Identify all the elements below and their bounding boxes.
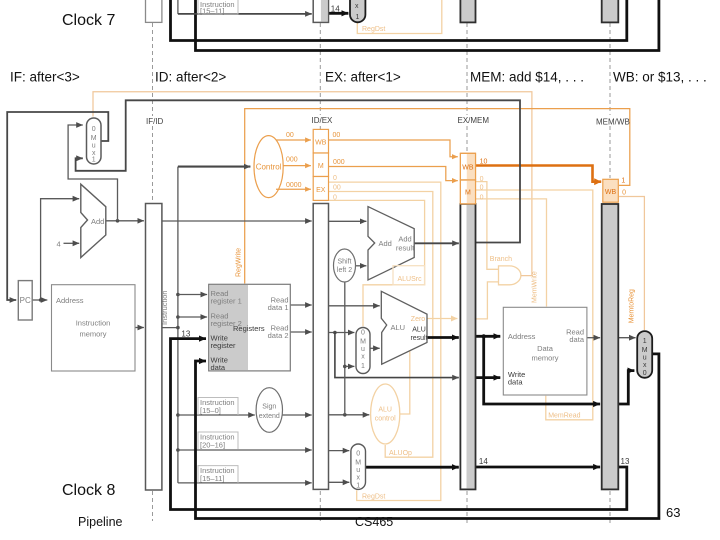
svg-text:00: 00 — [286, 132, 294, 139]
AND gate (branch taken) — [499, 266, 521, 285]
ALU — [381, 291, 427, 364]
svg-text:IF: after<3>: IF: after<3> — [10, 70, 80, 85]
svg-text:0: 0 — [361, 330, 365, 337]
sign extend oval — [256, 388, 282, 433]
svg-text:WB: WB — [462, 165, 474, 172]
instruction 15-0 field box — [198, 398, 238, 416]
wire: instruction 15-11 to ID/EX — [178, 482, 312, 484]
svg-text:memory: memory — [79, 330, 106, 339]
wire: writeback mux output loop to register write data — [196, 354, 659, 519]
wire: read data 2 ID/EX to ALUSrc mux input 0 — [329, 332, 355, 334]
wire: RegDst mux output to EX/MEM (write register 14) — [366, 466, 459, 469]
Control oval — [254, 136, 283, 198]
wire: PC mux output loop to PC — [7, 112, 108, 300]
wire: PC value up to Add — [41, 199, 80, 300]
svg-text:M: M — [642, 347, 648, 354]
svg-text:EX/MEM: EX/MEM — [458, 116, 490, 125]
clock7 MEM/WB pipeline register (bottom fragment) — [602, 0, 619, 22]
writeback mux — [637, 331, 652, 378]
svg-text:u: u — [643, 355, 647, 362]
svg-text:data: data — [569, 335, 584, 344]
svg-text:x: x — [361, 354, 365, 361]
svg-text:register 1: register 1 — [211, 297, 242, 306]
svg-text:0: 0 — [480, 184, 484, 191]
instruction memory — [52, 285, 136, 371]
svg-text:ID: after<2>: ID: after<2> — [155, 70, 226, 85]
ALUSrc label box — [393, 266, 425, 285]
svg-text:ALUSrc: ALUSrc — [398, 276, 423, 283]
PC source mux — [87, 118, 102, 164]
instruction 15-11 field box — [198, 466, 238, 483]
clock7 EX/MEM pipeline register (bottom fragment) — [460, 0, 475, 22]
svg-text:result: result — [410, 335, 427, 342]
svg-text:Sign: Sign — [262, 404, 276, 411]
svg-text:u: u — [356, 467, 360, 474]
svg-text:Data: Data — [537, 344, 554, 353]
ID/EX EX control box — [313, 177, 328, 201]
Zero wire EX/MEM to AND gate — [476, 282, 499, 319]
Control oval outputs to ID/EX EX — [276, 188, 311, 190]
svg-text:Add: Add — [91, 217, 104, 226]
PC+4 adder — [81, 184, 106, 257]
svg-text:000: 000 — [333, 159, 345, 166]
PC register — [18, 281, 32, 320]
Zero flag wire ALU to EX/MEM — [427, 318, 457, 320]
WB control staircase ID/EX to EX/MEM — [329, 140, 458, 157]
clock7 instruction [15-11] field box — [198, 0, 238, 16]
svg-text:Pipeline: Pipeline — [78, 515, 123, 529]
svg-text:left 2: left 2 — [337, 267, 352, 274]
wire: IF/ID instruction to bus — [162, 327, 178, 329]
RegWrite control wire MEM/WB to register file — [245, 109, 630, 284]
junction: bus at instruction 15-0 — [176, 413, 180, 417]
svg-text:M: M — [355, 460, 361, 467]
svg-text:14: 14 — [479, 457, 488, 466]
wire: data memory read data to MEM/WB — [587, 337, 600, 339]
wire: instruction bus vertical — [177, 167, 179, 483]
wire: read data MEM/WB to writeback mux input 1 — [618, 337, 635, 339]
svg-text:0: 0 — [622, 190, 626, 197]
svg-text:x: x — [356, 475, 360, 482]
wire: branch target loop EX/MEM to PC mux input 1 — [76, 100, 520, 242]
svg-text:ALU: ALU — [378, 407, 392, 414]
wire: instruction 20-16 ID/EX to RegDst mux input 0 — [329, 450, 350, 452]
svg-text:13: 13 — [621, 457, 630, 466]
MemRead control wire EX/MEM to data memory bottom — [476, 190, 593, 420]
svg-text:ID/EX: ID/EX — [312, 116, 334, 125]
svg-text:MemtoReg: MemtoReg — [629, 289, 636, 323]
wire: instruction memory output to IF/ID — [135, 327, 144, 329]
wire: ALU result EX/MEM to data memory address — [476, 335, 501, 338]
stage boundary dashed line EX (x=467) — [466, 23, 468, 526]
svg-text:Address: Address — [56, 296, 84, 305]
Branch control wire EX/MEM to AND gate — [476, 182, 499, 270]
wire: immediate up to shift left 2 — [344, 282, 346, 415]
clock7 ID/EX pipeline register (bottom fragment) — [313, 0, 328, 22]
M control staircase ID/EX to EX/MEM — [329, 167, 458, 181]
wire: instruction 15-11 ID/EX to RegDst mux input 1 — [329, 481, 350, 483]
svg-text:4: 4 — [57, 240, 61, 249]
svg-text:x: x — [355, 3, 359, 10]
wire: write data EX/MEM to data memory — [476, 376, 501, 379]
branch adder — [368, 207, 415, 280]
wire: immediate ID/EX to ALU control — [329, 414, 370, 416]
wire: read data 2 to ID/EX — [290, 331, 311, 333]
ALUSrc mux — [356, 328, 370, 374]
wire: instruction bus to Control — [178, 166, 251, 168]
svg-text:Instruction: Instruction — [76, 319, 111, 328]
wire: write register number EX/MEM to MEM/WB (14) — [476, 466, 601, 469]
wire: bus to read register 2 — [178, 316, 207, 318]
register file — [209, 284, 291, 372]
IF/ID pipeline register — [146, 204, 162, 491]
clock7 RegDst mux (bottom fragment) — [350, 0, 365, 22]
Control oval outputs to ID/EX WB — [276, 139, 311, 141]
ALU control output wire to ALU — [400, 351, 410, 414]
junction: bus at read register 1 — [176, 293, 180, 297]
svg-text:13: 13 — [181, 330, 190, 339]
svg-text:ALU: ALU — [391, 323, 406, 332]
junction: bus at IF/ID output — [176, 326, 180, 330]
wire: constant 4 to Add — [64, 242, 80, 244]
wire: instruction 15-0 to sign extend — [178, 414, 255, 416]
wire: immediate to ALUSrc mux input 1 — [345, 365, 355, 367]
MemWrite control wire EX/MEM to data memory — [476, 199, 547, 307]
WB control bold wire EX/MEM to MEM/WB (value 10) — [476, 166, 602, 182]
clock7 wire: value 14 from ID/EX to RegDst mux — [329, 5, 349, 14]
svg-text:WB: or $13, . . .: WB: or $13, . . . — [613, 70, 707, 85]
stage boundary dashed line MEM (x=610) — [609, 23, 611, 526]
svg-text:Zero: Zero — [411, 316, 426, 323]
svg-text:1: 1 — [621, 178, 625, 185]
svg-text:000: 000 — [286, 157, 298, 164]
svg-text:memory: memory — [531, 354, 558, 363]
svg-text:[20–16]: [20–16] — [200, 441, 225, 450]
svg-text:data: data — [508, 378, 523, 387]
wire: ALU result MEM/WB to writeback mux input 0 — [618, 371, 634, 404]
wire: PC+4 IF/ID to ID/EX — [162, 220, 312, 222]
svg-text:M: M — [360, 339, 366, 346]
junction: bus at read register 2 — [176, 315, 180, 319]
wire: ALU result ALU to EX/MEM — [427, 336, 459, 339]
svg-text:extend: extend — [259, 413, 280, 420]
svg-text:0000: 0000 — [286, 182, 302, 189]
svg-text:RegDst: RegDst — [362, 493, 385, 500]
wire: bus to read register 1 — [178, 294, 207, 296]
svg-text:Registers: Registers — [233, 324, 265, 333]
svg-text:MemWrite: MemWrite — [532, 271, 539, 303]
ALUSrc control wire (ID/EX EX-field to ALUSrc mux) — [329, 200, 425, 326]
Control oval outputs to ID/EX M — [283, 165, 311, 167]
svg-text:0: 0 — [643, 370, 647, 377]
EX/MEM pipeline register — [460, 204, 475, 490]
wire: sign extend output to ID/EX — [282, 414, 311, 416]
svg-text:control: control — [375, 416, 396, 423]
clock7 RegDst control wire hook — [357, 0, 442, 34]
ALU control oval — [371, 384, 400, 444]
svg-text:0: 0 — [333, 175, 337, 182]
clock7 wire: write-register feedback loop bottom — [171, 0, 627, 41]
svg-text:10: 10 — [480, 158, 488, 165]
wire: read data 1 ID/EX to ALU — [329, 305, 380, 307]
wire: branch Add result to EX/MEM — [414, 242, 459, 244]
wire: PC+4 up to PC mux input 0 — [68, 125, 117, 221]
svg-text:u: u — [361, 346, 365, 353]
data memory — [503, 307, 587, 395]
svg-text:M: M — [318, 163, 324, 170]
wire: read data 2 down to EX/MEM write data — [335, 333, 459, 378]
svg-text:ALU: ALU — [412, 327, 426, 334]
junction: bus at instruction 20-16 — [176, 448, 180, 452]
EX/MEM M control box — [460, 180, 475, 204]
ALUOp control wire (ID/EX EX-field to ALU control) — [329, 192, 433, 458]
svg-text:M: M — [91, 135, 97, 142]
svg-text:EX: EX — [316, 187, 326, 194]
svg-text:u: u — [92, 143, 96, 150]
svg-text:0: 0 — [480, 194, 484, 201]
svg-text:0: 0 — [356, 451, 360, 458]
svg-text:00: 00 — [333, 132, 341, 139]
wire: Add output (PC+4) to IF/ID — [106, 220, 144, 222]
svg-text:1: 1 — [356, 14, 360, 21]
junction: PC+4 — [116, 219, 120, 223]
svg-text:result: result — [396, 244, 415, 253]
MEM/WB pipeline register — [602, 204, 619, 489]
wire: PC+4 ID/EX to branch Add — [329, 220, 367, 222]
svg-text:ALUOp: ALUOp — [389, 450, 412, 457]
svg-text:Clock 8: Clock 8 — [62, 482, 115, 499]
svg-text:RegDst: RegDst — [362, 26, 385, 33]
svg-text:00: 00 — [333, 185, 341, 192]
svg-text:RegWrite: RegWrite — [236, 248, 243, 277]
svg-text:1: 1 — [643, 338, 647, 345]
wire: instruction 20-16 to ID/EX — [178, 449, 312, 451]
svg-text:IF/ID: IF/ID — [146, 117, 164, 126]
svg-text:1: 1 — [361, 363, 365, 370]
svg-text:M: M — [465, 190, 471, 197]
svg-text:0: 0 — [333, 195, 337, 202]
svg-text:WB: WB — [605, 189, 617, 196]
junction: read data 2 branch — [333, 331, 337, 335]
svg-text:data 2: data 2 — [268, 331, 289, 340]
clock7 wire: write-data feedback loop bottom — [196, 0, 659, 51]
svg-text:MemRead: MemRead — [548, 413, 580, 420]
ID/EX M control box — [313, 153, 328, 177]
wire: PC to instruction memory address — [32, 299, 47, 301]
wire: write register number loop MEM/WB to register file (13) — [171, 339, 627, 510]
svg-text:register: register — [211, 341, 237, 350]
ID/EX pipeline register — [313, 204, 328, 490]
clock7 wire: instruction [15-11] to ID/EX — [178, 13, 312, 15]
svg-text:MEM: add $14, . . .: MEM: add $14, . . . — [470, 70, 584, 85]
MemtoReg control wire MEM/WB to writeback mux — [619, 197, 644, 331]
RegDst control wire (ID/EX EX-field to RegDst mux) — [329, 182, 441, 500]
wire: ALUSrc mux output to ALU — [370, 347, 380, 349]
svg-text:Clock 7: Clock 7 — [62, 12, 115, 29]
svg-text:MEM/WB: MEM/WB — [596, 118, 630, 127]
junction: immediate to mux branch — [343, 365, 347, 369]
svg-text:data 1: data 1 — [268, 303, 289, 312]
svg-text:[15–11]: [15–11] — [200, 7, 224, 16]
clock7 wire: instruction bus stub — [177, 0, 179, 14]
EX/MEM WB control box — [460, 153, 475, 180]
svg-text:Shift: Shift — [337, 259, 351, 266]
svg-text:Add: Add — [379, 239, 392, 248]
junction: immediate branch — [343, 413, 347, 417]
svg-text:data: data — [211, 363, 226, 372]
shift left 2 oval — [334, 249, 356, 282]
svg-text:1: 1 — [356, 483, 360, 490]
stage boundary dashed line ID (x=320.3) — [319, 23, 321, 521]
svg-text:Control: Control — [256, 163, 282, 172]
junction: ALU result split — [482, 334, 486, 338]
stage boundary dashed line IF (x=152.5) — [152, 23, 154, 521]
RegDst mux — [351, 444, 366, 490]
svg-text:63: 63 — [666, 505, 680, 520]
svg-text:EX: after<1>: EX: after<1> — [325, 70, 401, 85]
PCSrc wire AND gate to PC mux — [93, 92, 532, 276]
wire: shift left 2 to branch Add — [356, 265, 367, 267]
instruction 20-16 field box — [198, 432, 238, 450]
svg-text:1: 1 — [92, 157, 96, 164]
svg-text:x: x — [643, 362, 647, 369]
ID/EX WB control box — [313, 129, 328, 153]
wire: read data 1 to ID/EX — [290, 304, 311, 306]
svg-text:PC: PC — [20, 296, 31, 305]
svg-text:[15–11]: [15–11] — [200, 474, 224, 483]
svg-text:[15–0]: [15–0] — [200, 406, 221, 415]
wire: ALU result bypass around data memory to MEM/WB — [484, 336, 600, 404]
svg-text:0: 0 — [92, 126, 96, 133]
svg-text:14: 14 — [331, 5, 340, 14]
svg-text:Add: Add — [398, 235, 411, 244]
junction: PC output — [39, 298, 43, 302]
MEM/WB WB control box — [603, 179, 619, 202]
svg-text:Branch: Branch — [490, 256, 512, 263]
svg-text:WB: WB — [315, 140, 327, 147]
svg-text:Address: Address — [508, 332, 536, 341]
svg-text:0: 0 — [480, 176, 484, 183]
clock7 IF/ID pipeline register (bottom fragment) — [146, 0, 162, 22]
